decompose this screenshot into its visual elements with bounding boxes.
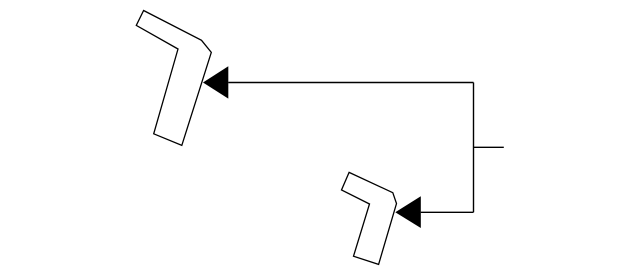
arrowhead pointing at part 1 bbox=[203, 66, 228, 98]
arrowhead pointing at part 2 bbox=[395, 196, 421, 228]
part 2 outline (lower bent elbow piece) bbox=[342, 172, 397, 264]
wire vertical spine bbox=[473, 83, 475, 213]
wire middle tick bbox=[474, 146, 504, 148]
part 1 outline (upper bent elbow piece) bbox=[136, 11, 211, 146]
wire leader line upper horizontal bbox=[228, 82, 473, 84]
wire leader line lower horizontal bbox=[421, 211, 474, 213]
